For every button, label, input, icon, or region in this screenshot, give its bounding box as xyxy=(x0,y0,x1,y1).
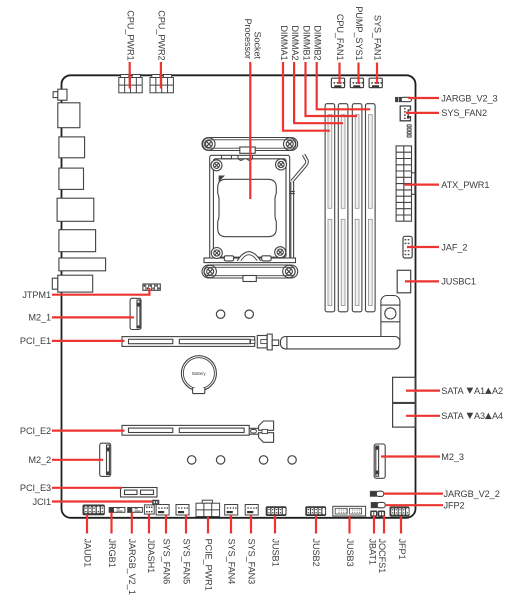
svg-text:DIMMB1: DIMMB1 xyxy=(301,25,311,60)
svg-text:A1: A1 xyxy=(474,386,485,396)
svg-text:JFP2: JFP2 xyxy=(444,501,465,511)
svg-text:JCI1: JCI1 xyxy=(33,497,52,507)
svg-text:DIMMB2: DIMMB2 xyxy=(313,25,323,60)
svg-text:JUSBC1: JUSBC1 xyxy=(441,277,476,287)
svg-text:JARGB_V2_1: JARGB_V2_1 xyxy=(127,539,137,595)
svg-text:JRGB1: JRGB1 xyxy=(107,539,117,568)
svg-text:DIMMA2: DIMMA2 xyxy=(290,25,300,60)
svg-text:SYS_FAN3: SYS_FAN3 xyxy=(246,539,256,585)
svg-text:JBAT1: JBAT1 xyxy=(367,539,377,565)
svg-text:SYS_FAN6: SYS_FAN6 xyxy=(161,539,171,585)
svg-text:SYS_FAN2: SYS_FAN2 xyxy=(441,108,487,118)
svg-text:JTPM1: JTPM1 xyxy=(22,290,51,300)
svg-text:M2_2: M2_2 xyxy=(28,455,51,465)
svg-text:JUSB1: JUSB1 xyxy=(270,539,280,567)
svg-text:A4: A4 xyxy=(492,411,503,421)
svg-text:CPU_PWR2: CPU_PWR2 xyxy=(157,10,167,60)
svg-text:PCI_E2: PCI_E2 xyxy=(20,426,51,436)
svg-text:Battery: Battery xyxy=(192,371,206,376)
svg-text:JARGB_V2_3: JARGB_V2_3 xyxy=(441,93,497,103)
svg-text:Processor: Processor xyxy=(243,19,253,59)
svg-text:SYS_FAN5: SYS_FAN5 xyxy=(181,539,191,585)
svg-text:ATX_PWR1: ATX_PWR1 xyxy=(441,180,489,190)
svg-text:A3: A3 xyxy=(474,411,485,421)
svg-text:PCI_E1: PCI_E1 xyxy=(20,336,51,346)
svg-text:SATA: SATA xyxy=(441,386,464,396)
svg-text:PUMP_SYS1: PUMP_SYS1 xyxy=(354,6,364,60)
svg-text:M2_1: M2_1 xyxy=(28,313,51,323)
svg-text:SYS_FAN1: SYS_FAN1 xyxy=(373,15,383,61)
svg-text:PCIE_PWR1: PCIE_PWR1 xyxy=(203,539,213,591)
svg-text:JUSB2: JUSB2 xyxy=(311,539,321,567)
svg-text:JUSB3: JUSB3 xyxy=(345,539,355,567)
svg-text:CPU_FAN1: CPU_FAN1 xyxy=(335,14,345,61)
svg-text:JAF_2: JAF_2 xyxy=(441,242,467,252)
svg-text:SYS_FAN4: SYS_FAN4 xyxy=(226,539,236,585)
svg-text:JARGB_V2_2: JARGB_V2_2 xyxy=(444,489,500,499)
svg-text:M2_3: M2_3 xyxy=(441,452,464,462)
svg-text:A2: A2 xyxy=(492,386,503,396)
svg-text:JOCFS1: JOCFS1 xyxy=(377,539,387,574)
svg-text:JFP1: JFP1 xyxy=(397,539,407,560)
svg-text:JDASH1: JDASH1 xyxy=(146,539,156,574)
svg-text:SATA: SATA xyxy=(441,411,464,421)
svg-text:PCI_E3: PCI_E3 xyxy=(20,483,51,493)
svg-text:Socket: Socket xyxy=(253,32,263,60)
svg-text:DIMMA1: DIMMA1 xyxy=(279,25,289,60)
svg-text:JAUD1: JAUD1 xyxy=(82,539,92,568)
svg-text:CPU_PWR1: CPU_PWR1 xyxy=(125,10,135,60)
